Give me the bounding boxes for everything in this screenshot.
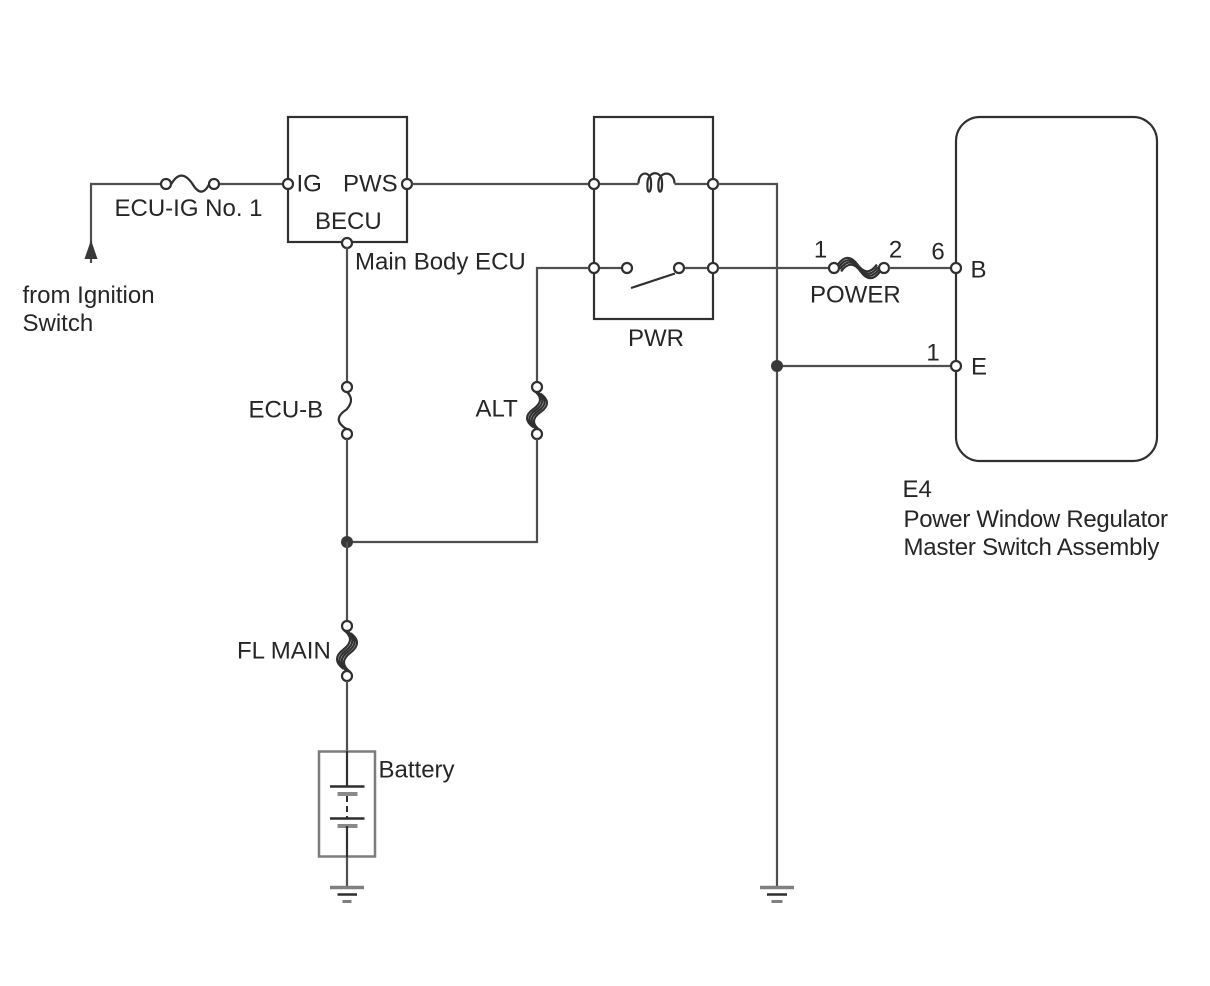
fuse ECU-B [339, 392, 351, 430]
ground (relay / E) [760, 888, 794, 902]
svg-text:PWR: PWR [628, 325, 684, 352]
svg-text:Battery: Battery [379, 757, 455, 784]
fuse ECU-B bottom terminal [342, 429, 352, 439]
wire relay pin to coil [599, 183, 639, 185]
battery cell 2 positive plate [330, 817, 365, 820]
battery cell 2 negative plate [338, 824, 358, 828]
fuse ECU-IG No. 1 right terminal [209, 179, 219, 189]
fuse POWER terminal 2 [879, 263, 889, 273]
svg-text:6: 6 [931, 239, 944, 266]
battery cell 1 negative plate [338, 792, 358, 796]
relay coil [639, 173, 675, 191]
svg-text:ALT: ALT [476, 396, 519, 423]
wire coil to relay pin [675, 183, 709, 185]
wire: fuse to BECU IG pin [219, 183, 283, 185]
wire junction down to FL MAIN [346, 542, 348, 621]
svg-text:E4: E4 [903, 476, 932, 503]
fusible link FL MAIN top terminal [342, 621, 352, 631]
arrow from ignition switch (points up) [85, 240, 98, 259]
svg-text:from Ignition: from Ignition [23, 282, 155, 309]
E4 Power Window Regulator Master Switch Assembly box [956, 117, 1157, 461]
wire E pin to ground rail [777, 365, 951, 367]
wire ALT branch: relay switch to fusible link [537, 268, 589, 382]
svg-text:B: B [971, 257, 987, 284]
battery internal lead bottom [346, 826, 348, 857]
relay PWR coil terminal left [589, 179, 599, 189]
svg-text:Switch: Switch [23, 310, 94, 337]
fuse ECU-IG No. 1 element [171, 176, 209, 192]
junction battery rail [341, 536, 353, 548]
relay PWR switch terminal left [589, 263, 599, 273]
svg-text:Power Window Regulator: Power Window Regulator [904, 506, 1168, 533]
wire FL MAIN to battery [346, 681, 348, 751]
relay switch contact left [622, 263, 632, 273]
fusible link ALT top terminal [532, 382, 542, 392]
battery internal lead top [346, 751, 348, 786]
fusible link ALT [527, 390, 547, 430]
pin IG [283, 179, 293, 189]
svg-text:ECU-IG No. 1: ECU-IG No. 1 [115, 195, 263, 222]
fusible link FL MAIN [337, 630, 357, 672]
svg-text:IG: IG [297, 171, 322, 198]
fuse POWER terminal 1 [829, 263, 839, 273]
svg-text:Master Switch Assembly: Master Switch Assembly [904, 534, 1160, 561]
fusible link ALT bottom terminal [532, 429, 542, 439]
pin B [951, 263, 961, 273]
svg-text:1: 1 [926, 340, 939, 367]
wire coil out to ground rail [718, 184, 777, 886]
wire switch out to POWER fuse [718, 267, 829, 269]
fusible link FL MAIN bottom terminal [342, 671, 352, 681]
junction ground rail / E wire [771, 360, 783, 372]
battery box [319, 752, 375, 857]
wire: ignition feed horizontal to IG terminal [91, 184, 161, 263]
wire battery to ground [346, 857, 348, 887]
relay PWR switch terminal right [708, 263, 718, 273]
svg-text:E: E [971, 354, 987, 381]
pin PWS [402, 179, 412, 189]
Main Body ECU box BECU [288, 117, 407, 242]
fuse ECU-IG No. 1 left terminal [161, 179, 171, 189]
svg-text:BECU: BECU [315, 208, 382, 235]
relay PWR box [594, 117, 713, 319]
svg-text:POWER: POWER [810, 282, 901, 309]
svg-text:ECU-B: ECU-B [249, 397, 324, 424]
wire relay terminal to switch contact [599, 267, 622, 269]
svg-text:2: 2 [889, 237, 902, 264]
battery cell 1 positive plate [330, 785, 365, 788]
wire ALT to junction rail [347, 439, 537, 542]
wire PWS to relay [412, 183, 589, 185]
wire switch contact to relay terminal [684, 267, 708, 269]
svg-text:FL MAIN: FL MAIN [237, 638, 331, 665]
relay switch blade [631, 274, 675, 289]
pin E [951, 361, 961, 371]
ground (battery) [330, 888, 364, 902]
svg-text:1: 1 [814, 237, 827, 264]
relay PWR coil terminal right [708, 179, 718, 189]
wire ECU-B to junction [346, 439, 348, 542]
svg-text:PWS: PWS [343, 171, 398, 198]
fuse ECU-B top terminal [342, 382, 352, 392]
svg-text:Main Body ECU: Main Body ECU [355, 249, 526, 276]
wire fuse to B pin [889, 267, 951, 269]
pin BECU bottom [342, 238, 352, 248]
relay switch contact right [674, 263, 684, 273]
battery inter-cell dashed link [346, 796, 348, 818]
fuse POWER (fusible link) [838, 258, 880, 278]
wire BECU bottom down to fuse ECU-B [346, 247, 348, 382]
